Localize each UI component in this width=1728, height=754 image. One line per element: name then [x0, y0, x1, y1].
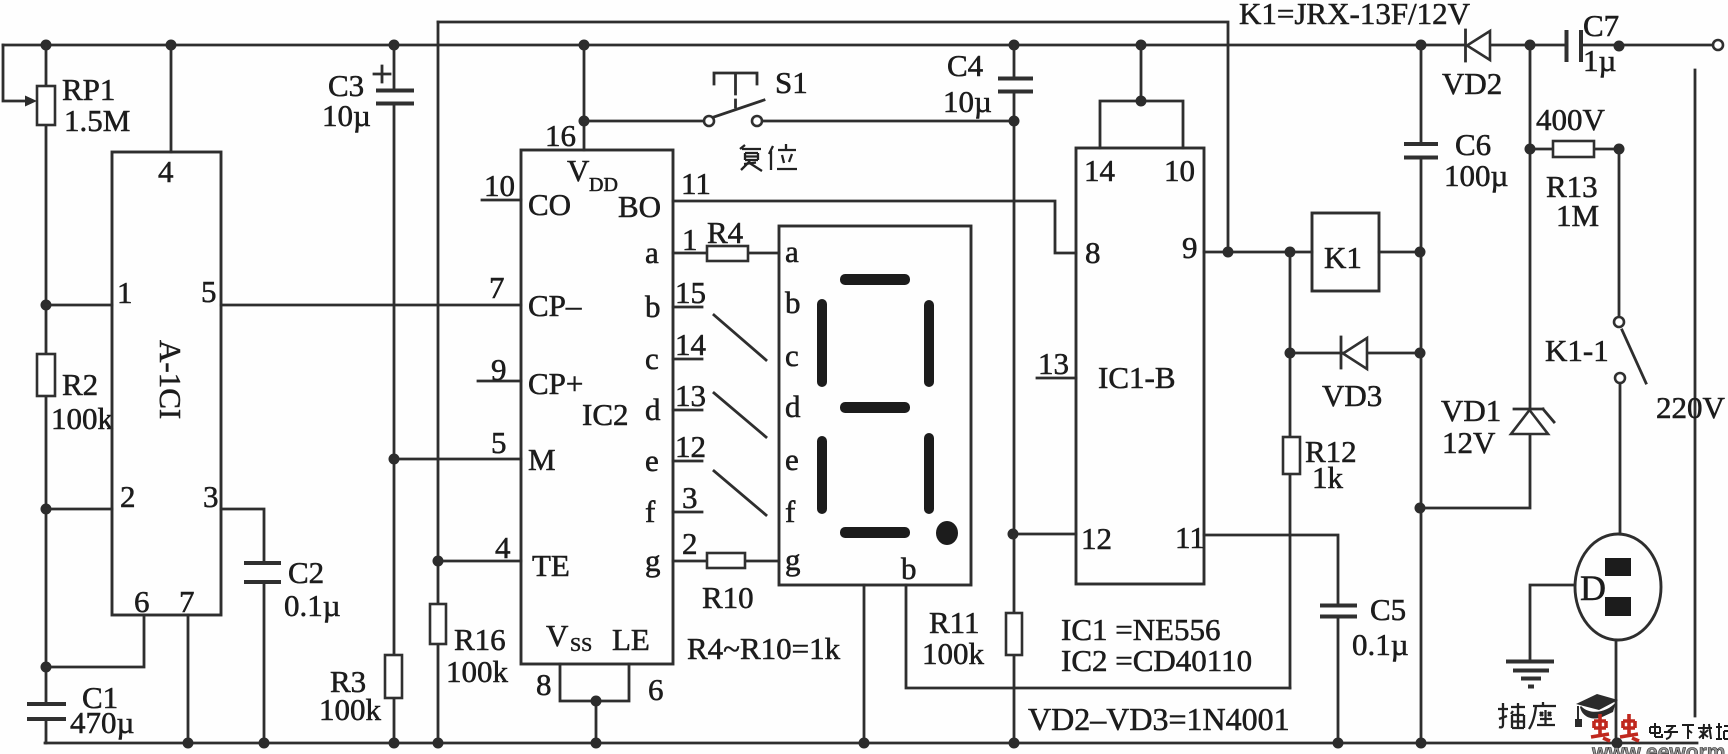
- svg-text:IC2 =CD40110: IC2 =CD40110: [1061, 643, 1252, 678]
- pin label 16: [545, 118, 576, 153]
- svg-text:V: V: [546, 618, 569, 653]
- socket prong lower: [1605, 597, 1631, 616]
- capacitor C2: [244, 563, 281, 582]
- svg-text:A-1CI: A-1CI: [153, 340, 188, 419]
- svg-text:9: 9: [1182, 230, 1198, 265]
- wire IC1-A pin5 to IC2 CP-: [221, 304, 521, 307]
- capacitor C3: [374, 45, 414, 459]
- node TE junction: [433, 556, 444, 567]
- svg-text:C7: C7: [1583, 8, 1619, 43]
- node R13 left junction: [1525, 144, 1536, 155]
- capacitor C6: [1404, 144, 1438, 158]
- node pin12 junction: [1008, 529, 1019, 540]
- label D socket: [1580, 568, 1606, 608]
- svg-text:13: 13: [1038, 346, 1069, 381]
- wire VDD column from rail to IC2 pin16: [583, 45, 586, 150]
- capacitor C7: [1567, 30, 1582, 62]
- label 10u C4: [943, 84, 992, 119]
- resistor R16: [430, 604, 446, 644]
- label CP-: [528, 288, 582, 323]
- pin label 9: [491, 352, 507, 387]
- segment upper-right: [924, 300, 934, 387]
- node rail junction K1-1 column: [1614, 41, 1625, 52]
- label LE: [612, 622, 650, 657]
- svg-text:220V: 220V: [1656, 390, 1726, 425]
- wire M pin to IC2: [394, 458, 521, 461]
- pin label 12: [1081, 521, 1112, 556]
- svg-text:d: d: [645, 392, 661, 427]
- socket prong upper: [1605, 558, 1631, 576]
- svg-text:5: 5: [491, 425, 507, 460]
- svg-text:CP+: CP+: [528, 366, 583, 401]
- svg-text:b: b: [645, 289, 661, 324]
- node rail junction IC1-B top bracket: [1136, 40, 1147, 51]
- node C6 column VD1 branch junction: [1415, 503, 1426, 514]
- terminal open circle right end of rail: [1713, 40, 1723, 50]
- pin label 7: [179, 584, 195, 619]
- svg-text:C5: C5: [1370, 592, 1406, 627]
- pin label 7: [489, 270, 505, 305]
- svg-text:BO: BO: [618, 189, 661, 224]
- label R11: [929, 605, 980, 640]
- label 100u C6: [1444, 158, 1508, 193]
- label 220V: [1656, 390, 1726, 425]
- pin label b: [645, 289, 661, 324]
- wire display common to ground: [863, 585, 866, 743]
- svg-text:100k: 100k: [319, 692, 382, 727]
- segment bottom: [840, 527, 910, 538]
- svg-text:CP–: CP–: [528, 288, 582, 323]
- svg-text:C4: C4: [947, 48, 984, 83]
- svg-text:3: 3: [203, 479, 219, 514]
- node pin9 junction R12 column: [1285, 247, 1296, 258]
- display label g: [785, 542, 801, 577]
- label CO: [528, 187, 571, 222]
- label 1M: [1556, 198, 1599, 233]
- node ground rail junction R16: [433, 738, 444, 749]
- svg-text:100k: 100k: [51, 401, 114, 436]
- pin label c: [645, 341, 659, 376]
- node pin6 junction: [41, 662, 52, 673]
- resistor R2: [37, 305, 55, 509]
- display label a: [785, 234, 799, 269]
- svg-text:M: M: [528, 442, 556, 477]
- label TE: [532, 548, 570, 583]
- pin label 6 IC2: [648, 672, 664, 707]
- resistor R3: [385, 459, 402, 743]
- watermark graduation cap logo: [1575, 694, 1618, 727]
- label 470u: [70, 705, 134, 740]
- svg-text:b: b: [785, 285, 801, 320]
- svg-text:9: 9: [491, 352, 507, 387]
- pin label 4: [158, 154, 174, 189]
- pin label 10: [1164, 153, 1195, 188]
- wire 220V line right side: [1694, 70, 1697, 716]
- node ground rail junction C2: [259, 738, 270, 749]
- svg-text:7: 7: [489, 270, 505, 305]
- svg-text:14: 14: [1084, 153, 1116, 188]
- label IC2 = CD40110: [1061, 643, 1252, 678]
- display label f: [785, 494, 796, 529]
- svg-text:S1: S1: [775, 65, 808, 100]
- bus slash mark 1: [714, 315, 766, 360]
- svg-text:1: 1: [117, 275, 133, 310]
- svg-text:C6: C6: [1455, 127, 1491, 162]
- svg-text:16: 16: [545, 118, 576, 153]
- label C2: [288, 555, 324, 590]
- node rail junction C3 column: [389, 40, 400, 51]
- label 100k R11: [922, 636, 985, 671]
- svg-text:100k: 100k: [446, 654, 509, 689]
- svg-text:10µ: 10µ: [322, 98, 371, 133]
- svg-text:0.1µ: 0.1µ: [1352, 627, 1409, 662]
- pin label e: [645, 443, 659, 478]
- label IC1-B: [1098, 360, 1176, 395]
- svg-text:R4~R10=1k: R4~R10=1k: [687, 631, 841, 666]
- label IC1-A rotated: [153, 340, 188, 419]
- node pin2 junction: [41, 504, 52, 515]
- node VD3 left junction: [1285, 348, 1296, 359]
- svg-text:R10: R10: [702, 580, 754, 615]
- pin label 3: [203, 479, 219, 514]
- svg-text:0.1µ: 0.1µ: [284, 588, 341, 623]
- pin 13 stub: [673, 378, 706, 413]
- switch K1-1: [1614, 149, 1646, 534]
- label M: [528, 442, 556, 477]
- label Vdd: [567, 153, 618, 196]
- resistor R11: [1006, 534, 1022, 743]
- svg-text:13: 13: [675, 378, 706, 413]
- svg-text:8: 8: [536, 667, 552, 702]
- wire R2 bottom to C1: [45, 509, 48, 743]
- node ground rail junction display: [859, 738, 870, 749]
- node S1 right junction: [1009, 116, 1020, 127]
- svg-text:400V: 400V: [1536, 102, 1606, 137]
- svg-text:1µ: 1µ: [1583, 43, 1616, 78]
- display label d: [785, 389, 801, 424]
- svg-text:14: 14: [675, 327, 707, 362]
- svg-text:b: b: [901, 551, 917, 586]
- pin label a: [645, 235, 659, 270]
- wire BO pin11 to IC1-B pin8: [673, 201, 1076, 253]
- label BO: [618, 189, 661, 224]
- label 100k R3: [319, 692, 382, 727]
- wire VD1 R13 column: [1420, 45, 1530, 508]
- node ground rail junction C6 column: [1416, 738, 1427, 749]
- watermark dianzi xiazaizhan characters: [1650, 723, 1728, 739]
- wire TE/R16 column: [437, 22, 440, 743]
- svg-text:f: f: [785, 494, 796, 529]
- pin 15 stub: [673, 275, 706, 310]
- svg-text:12V: 12V: [1442, 425, 1496, 460]
- wire top net from R16/TE column to IC1-B pin9 node: [438, 22, 1228, 252]
- label R10: [702, 580, 754, 615]
- svg-text:VD1: VD1: [1441, 393, 1501, 428]
- svg-text:15: 15: [675, 275, 706, 310]
- wire TE pin to IC2: [438, 560, 521, 563]
- resistor R13: [1530, 141, 1619, 157]
- label R2: [62, 367, 98, 402]
- wire IC1-A pin4 from rail: [170, 45, 173, 152]
- wire R12 VD3 column: [1289, 252, 1292, 688]
- segment upper-left: [817, 299, 827, 387]
- svg-text:e: e: [645, 443, 659, 478]
- timer U1 IC1-B box: [1076, 148, 1204, 584]
- svg-text:IC1 =NE556: IC1 =NE556: [1061, 612, 1221, 647]
- node bracket junction: [1136, 96, 1147, 107]
- label RP1: [62, 72, 115, 107]
- wire K1 right to C6 column: [1379, 251, 1420, 254]
- svg-text:IC2: IC2: [582, 397, 629, 432]
- svg-text:8: 8: [1085, 235, 1101, 270]
- pin 3 stub: [673, 480, 702, 515]
- node rail junction C4 column: [1009, 40, 1020, 51]
- wire bottom ground rail: [45, 742, 1697, 745]
- node C6 column K1 junction: [1415, 247, 1426, 258]
- label R4~R10=1k: [687, 631, 841, 666]
- svg-text:VD2–VD3=1N4001: VD2–VD3=1N4001: [1028, 701, 1290, 737]
- svg-text:3: 3: [682, 480, 698, 515]
- display label c: [785, 338, 799, 373]
- label 0.1u C5: [1352, 627, 1409, 662]
- node rail junction IC1-A pin4: [166, 40, 177, 51]
- svg-text:c: c: [645, 341, 659, 376]
- svg-text:1k: 1k: [1312, 460, 1344, 495]
- label VD3: [1322, 378, 1382, 413]
- node pin8-6 junction: [591, 696, 602, 707]
- svg-text:V: V: [567, 153, 590, 188]
- svg-text:R4: R4: [707, 215, 744, 250]
- svg-text:470µ: 470µ: [70, 705, 134, 740]
- wire C6 column: [1420, 45, 1423, 743]
- op-amp U1 IC1-A box: [112, 152, 221, 615]
- label C6: [1455, 127, 1491, 162]
- svg-text:12: 12: [675, 429, 706, 464]
- label 1.5M: [64, 103, 130, 138]
- label R13: [1546, 169, 1598, 204]
- label 0.1u C2: [284, 588, 341, 623]
- svg-text:VD2: VD2: [1442, 66, 1502, 101]
- potentiometer RP1: [25, 45, 55, 305]
- label VD2: [1442, 66, 1502, 101]
- pin label 6: [134, 584, 150, 619]
- svg-text:2: 2: [120, 479, 136, 514]
- label 12V: [1442, 425, 1496, 460]
- label 400V: [1536, 102, 1606, 137]
- label R16: [454, 622, 506, 657]
- node ground rail junction IC2: [591, 738, 602, 749]
- node pin16 junction: [579, 116, 590, 127]
- wire IC1-A pin7 to ground rail: [187, 615, 190, 743]
- pin label g: [645, 543, 661, 578]
- relay coil K1: [1312, 213, 1379, 291]
- pin 12 stub: [673, 429, 706, 464]
- bus slash mark 2: [714, 393, 766, 437]
- svg-text:R16: R16: [454, 622, 506, 657]
- svg-text:VD3: VD3: [1322, 378, 1382, 413]
- zener diode VD1: [1511, 409, 1554, 434]
- label 100k R16: [446, 654, 509, 689]
- svg-text:11: 11: [681, 166, 711, 201]
- pin 13 stub: [1037, 346, 1076, 381]
- label R4: [707, 215, 744, 250]
- resistor R10: [673, 553, 779, 568]
- wire RP1 wiper hook from rail: [3, 45, 25, 101]
- label K1=JRX-13F/12V: [1239, 0, 1471, 31]
- svg-text:CO: CO: [528, 187, 571, 222]
- pin label f: [645, 494, 656, 529]
- svg-text:12: 12: [1081, 521, 1112, 556]
- watermark www.eeworm.com gray: [1591, 741, 1728, 754]
- label Vss: [546, 618, 592, 656]
- wire top supply rail: [3, 44, 1713, 47]
- capacitor C1: [27, 704, 66, 719]
- wire IC1-A pin1: [46, 304, 112, 307]
- label C1: [82, 680, 118, 715]
- capacitor C4: [998, 45, 1033, 534]
- label C4: [947, 48, 984, 83]
- svg-text:c: c: [785, 338, 799, 373]
- svg-text:LE: LE: [612, 622, 650, 657]
- svg-text:10: 10: [1164, 153, 1195, 188]
- diode VD2: [1466, 30, 1491, 61]
- node pin9 junction top-net: [1223, 247, 1234, 258]
- label C7: [1583, 8, 1619, 43]
- wire socket bottom to rail: [1615, 640, 1618, 743]
- label 1u C7: [1583, 43, 1616, 78]
- label 100k R2: [51, 401, 114, 436]
- label IC1 = NE556: [1061, 612, 1221, 647]
- label VD2-VD3=1N4001: [1028, 701, 1290, 737]
- capacitor C5: [1320, 606, 1357, 617]
- svg-text:5: 5: [201, 274, 217, 309]
- svg-text:TE: TE: [532, 548, 570, 583]
- wire IC1-B top bracket pins 14 10: [1100, 45, 1183, 148]
- node ground rail junction C5: [1333, 738, 1344, 749]
- svg-text:a: a: [645, 235, 659, 270]
- pin label 5: [491, 425, 507, 460]
- label fuwei reset: [740, 144, 797, 171]
- svg-text:6: 6: [134, 584, 150, 619]
- svg-text:f: f: [645, 494, 656, 529]
- svg-text:RP1: RP1: [62, 72, 115, 107]
- resistor R12: [1283, 437, 1300, 474]
- svg-text:K1-1: K1-1: [1545, 333, 1609, 368]
- wire IC2 pin8 pin6 to ground: [560, 664, 629, 743]
- pin 9 CP+ stub: [478, 380, 521, 383]
- pin label 9: [1182, 230, 1198, 265]
- wire IC1-A pin6 to C1 node: [46, 615, 144, 667]
- wire IC1-A pin3 to C2: [221, 509, 264, 743]
- segment middle: [840, 402, 910, 413]
- label R12: [1305, 434, 1357, 469]
- node M wire junction: [389, 454, 400, 465]
- segment lower-left: [817, 436, 827, 514]
- wire IC1-B pin9 to K1: [1204, 251, 1312, 254]
- resistor R4: [673, 246, 779, 261]
- svg-text:6: 6: [648, 672, 664, 707]
- socket outlet circle: [1575, 534, 1661, 640]
- pin label 5: [201, 274, 217, 309]
- pin label 1: [117, 275, 133, 310]
- svg-text:e: e: [785, 442, 799, 477]
- svg-text:d: d: [785, 389, 801, 424]
- segment lower-right: [924, 433, 934, 514]
- pin label 2: [120, 479, 136, 514]
- node ground rail junction pin7: [183, 738, 194, 749]
- svg-text:1M: 1M: [1556, 198, 1599, 233]
- label S1: [775, 65, 808, 100]
- display label e: [785, 442, 799, 477]
- pin label 1 R4: [682, 222, 698, 257]
- label VD1: [1441, 393, 1501, 428]
- svg-text:C2: C2: [288, 555, 324, 590]
- svg-text:1.5M: 1.5M: [64, 103, 130, 138]
- wire socket left to ground symbol: [1530, 585, 1575, 660]
- label C5: [1370, 592, 1406, 627]
- svg-text:2: 2: [682, 526, 698, 561]
- svg-text:R2: R2: [62, 367, 98, 402]
- pin label d: [645, 392, 661, 427]
- svg-text:IC1-B: IC1-B: [1098, 360, 1176, 395]
- ground symbol: [1506, 662, 1554, 687]
- segment decimal point: [936, 521, 958, 545]
- node ground rail junction R11: [1009, 738, 1020, 749]
- display 7-segment box: [779, 226, 971, 585]
- svg-text:4: 4: [495, 530, 511, 565]
- pin label 8 IC2: [536, 667, 552, 702]
- svg-text:11: 11: [1175, 520, 1205, 555]
- pin label 11: [1175, 520, 1205, 555]
- label R3: [330, 664, 366, 699]
- node pin1 junction: [41, 300, 52, 311]
- svg-text:100µ: 100µ: [1444, 158, 1508, 193]
- label K1-1: [1545, 333, 1609, 368]
- pin 10 CO stub: [482, 199, 521, 202]
- wire IC1-B pin11 to C5: [1204, 535, 1338, 743]
- node rail junction RP1 top: [41, 40, 52, 51]
- display label b: [785, 285, 801, 320]
- pin label 2 R10: [682, 526, 698, 561]
- label 1k R12: [1312, 460, 1344, 495]
- label C3: [328, 68, 364, 103]
- node R13 right junction: [1614, 144, 1625, 155]
- watermark chongchong red characters: [1591, 714, 1639, 741]
- pin label 10: [484, 168, 515, 203]
- svg-text:K1=JRX-13F/12V: K1=JRX-13F/12V: [1239, 0, 1471, 31]
- svg-text:R11: R11: [929, 605, 980, 640]
- switch S1: [584, 73, 1014, 126]
- diode VD3: [1290, 337, 1420, 369]
- pin label 11: [681, 166, 711, 201]
- svg-text:10µ: 10µ: [943, 84, 992, 119]
- node VD3 right junction: [1415, 348, 1426, 359]
- node ground rail junction socket: [1612, 738, 1623, 749]
- bus slash mark 3: [714, 471, 766, 515]
- svg-text:a: a: [785, 234, 799, 269]
- node rail junction VD1 column: [1525, 40, 1536, 51]
- svg-text:g: g: [785, 542, 801, 577]
- wire display b output down and right: [906, 585, 1290, 688]
- svg-text:10: 10: [484, 168, 515, 203]
- svg-text:www.eeworm.com: www.eeworm.com: [1591, 741, 1728, 754]
- label 10u C3: [322, 98, 371, 133]
- svg-text:g: g: [645, 543, 661, 578]
- node rail junction C6 column: [1416, 40, 1427, 51]
- node ground rail junction R3: [389, 738, 400, 749]
- display label b bottom: [901, 551, 917, 586]
- svg-text:DD: DD: [589, 174, 618, 196]
